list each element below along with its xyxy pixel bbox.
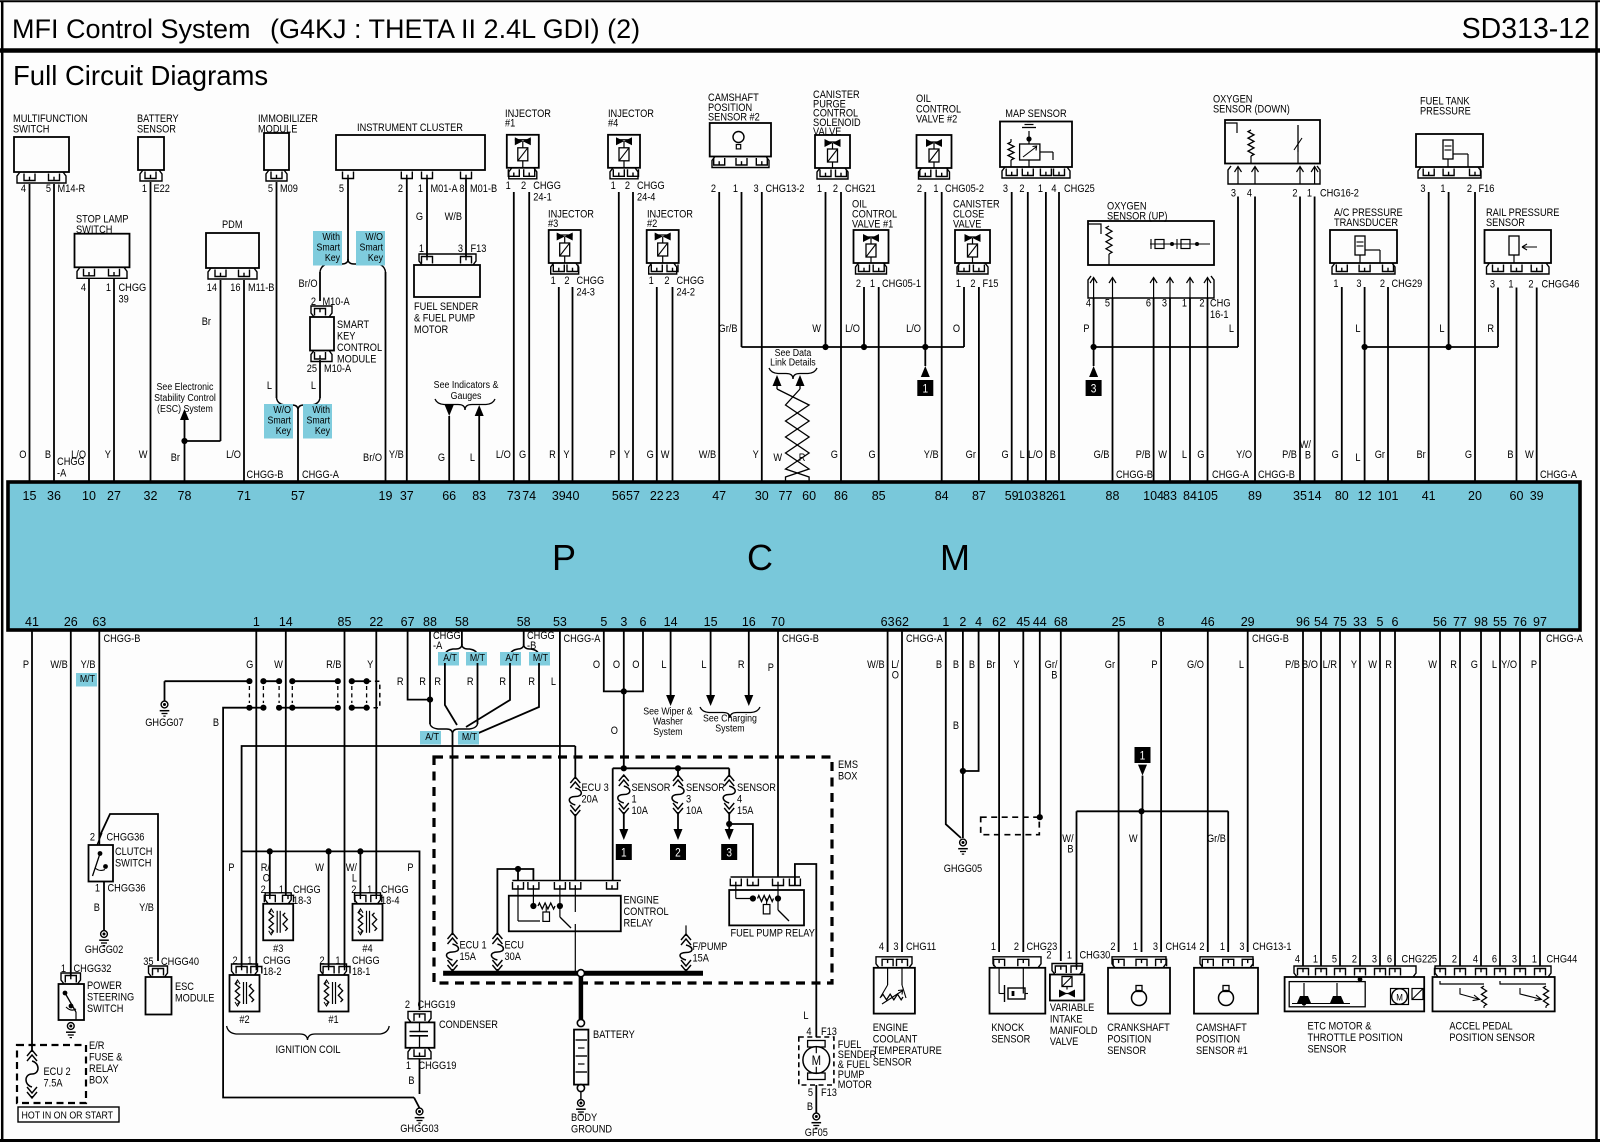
- svg-text:CHGG36: CHGG36: [108, 883, 146, 895]
- svg-text:L: L: [551, 676, 556, 688]
- svg-text:POWER: POWER: [87, 980, 122, 992]
- wire: [285, 630, 287, 896]
- wire L/R ETC pin 5: [1339, 630, 1341, 966]
- svg-text:76: 76: [1513, 615, 1527, 629]
- wire: [88, 279, 90, 482]
- see charging reference: [700, 707, 730, 718]
- svg-text:1: 1: [1313, 954, 1318, 966]
- svg-text:W/B: W/B: [445, 211, 463, 223]
- svg-text:88: 88: [423, 615, 437, 629]
- svg-text:W: W: [274, 659, 283, 671]
- svg-text:Y/B: Y/B: [389, 449, 404, 461]
- wire O pin 6: [624, 630, 643, 691]
- svg-text:66: 66: [442, 489, 456, 503]
- wire smart key L: [319, 360, 321, 398]
- svg-text:R: R: [1385, 659, 1392, 671]
- wire: [1058, 192, 1060, 482]
- svg-text:39: 39: [552, 489, 566, 503]
- svg-text:3: 3: [1490, 279, 1495, 291]
- svg-text:O: O: [892, 670, 899, 682]
- wire: [150, 182, 152, 482]
- svg-text:SENSOR: SENSOR: [686, 782, 725, 794]
- svg-text:23: 23: [666, 489, 680, 503]
- svg-text:Br: Br: [202, 316, 212, 328]
- wire G to pin 66: [445, 405, 454, 416]
- wire: [113, 279, 115, 482]
- wire W to crankshaft sensor pin1: [1141, 811, 1143, 952]
- marker 1 sensor: [616, 844, 632, 860]
- svg-text:M/T: M/T: [462, 731, 477, 743]
- svg-text:4: 4: [1051, 183, 1056, 195]
- svg-text:R: R: [1487, 323, 1494, 335]
- svg-text:83: 83: [1163, 489, 1177, 503]
- svg-text:1: 1: [1038, 183, 1043, 195]
- svg-text:18-3: 18-3: [293, 895, 312, 907]
- svg-text:G: G: [246, 659, 253, 671]
- wire P oxygen up pin4 to net 3: [1093, 298, 1095, 347]
- svg-text:ESC: ESC: [175, 981, 194, 993]
- svg-text:B: B: [1050, 449, 1056, 461]
- svg-text:P: P: [23, 659, 29, 671]
- svg-text:1: 1: [649, 275, 654, 287]
- wire R second M/T branch: [460, 663, 539, 741]
- svg-text:1: 1: [1440, 183, 1445, 195]
- svg-text:MOTOR: MOTOR: [838, 1079, 872, 1091]
- wire W accel pin 5: [1439, 630, 1441, 966]
- wire Br pin 62: [998, 630, 1000, 952]
- svg-text:VALVE: VALVE: [1050, 1037, 1079, 1049]
- svg-text:#1: #1: [505, 118, 516, 130]
- svg-text:B: B: [213, 717, 219, 729]
- svg-text:10A: 10A: [632, 805, 649, 817]
- wire: [1516, 288, 1518, 483]
- svg-text:INTAKE: INTAKE: [1050, 1014, 1083, 1026]
- svg-text:F13: F13: [821, 1087, 837, 1099]
- svg-text:15: 15: [704, 615, 718, 629]
- svg-text:5: 5: [1432, 954, 1437, 966]
- net A/C fuel-tank rail junction line: [1365, 346, 1498, 348]
- svg-text:B: B: [45, 449, 51, 461]
- svg-text:2: 2: [833, 183, 838, 195]
- svg-text:CHGG-B: CHGG-B: [247, 469, 284, 481]
- svg-text:1: 1: [870, 278, 875, 290]
- ECU 1 fuse 15A: [448, 933, 458, 939]
- svg-text:W: W: [1158, 449, 1167, 461]
- svg-text:G: G: [831, 449, 838, 461]
- svg-text:8: 8: [1158, 615, 1165, 629]
- wire: [344, 630, 346, 966]
- svg-text:5: 5: [46, 183, 51, 195]
- wire G cluster pin1 to fuel sender: [426, 179, 428, 257]
- svg-text:73: 73: [507, 489, 521, 503]
- svg-text:System: System: [653, 726, 682, 738]
- svg-text:R: R: [467, 676, 474, 688]
- svg-text:1: 1: [1140, 750, 1146, 763]
- svg-text:1: 1: [1532, 954, 1537, 966]
- svg-text:4: 4: [879, 941, 884, 953]
- svg-text:2: 2: [521, 180, 526, 192]
- svg-text:R: R: [738, 659, 745, 671]
- svg-text:3: 3: [620, 615, 627, 629]
- E/R fuse and relay box: [17, 1045, 86, 1103]
- svg-text:L/O: L/O: [496, 449, 511, 461]
- svg-text:37: 37: [400, 489, 414, 503]
- svg-text:Gr: Gr: [1105, 659, 1116, 671]
- svg-text:18-1: 18-1: [352, 966, 371, 978]
- svg-text:CHGG: CHGG: [576, 275, 604, 287]
- svg-text:G/O: G/O: [1187, 659, 1204, 671]
- svg-text:M01-A: M01-A: [431, 183, 458, 195]
- svg-text:83: 83: [472, 489, 486, 503]
- svg-text:2: 2: [664, 275, 669, 287]
- wire Y/B pin 63: [98, 630, 100, 845]
- svg-text:GF05: GF05: [805, 1127, 828, 1139]
- wire: [618, 192, 620, 482]
- svg-text:CHG13-2: CHG13-2: [765, 183, 804, 195]
- svg-text:R: R: [1450, 659, 1457, 671]
- svg-text:1: 1: [551, 275, 556, 287]
- svg-text:60: 60: [1510, 489, 1524, 503]
- svg-text:1: 1: [733, 183, 738, 195]
- svg-text:6: 6: [1387, 954, 1392, 966]
- svg-text:Y: Y: [753, 449, 759, 461]
- svg-text:BATTERY: BATTERY: [593, 1029, 635, 1041]
- svg-text:CHG25: CHG25: [1064, 183, 1095, 195]
- svg-text:45: 45: [1016, 615, 1030, 629]
- wire W canister purge pin1 to net 1: [825, 192, 827, 347]
- svg-text:-A: -A: [433, 640, 442, 652]
- svg-text:ECU 1: ECU 1: [459, 940, 486, 952]
- wire R pin 16 charging arrow: [748, 630, 750, 695]
- svg-text:2: 2: [959, 615, 966, 629]
- svg-text:CHGG: CHGG: [533, 180, 561, 192]
- svg-text:F16: F16: [1478, 183, 1494, 195]
- svg-text:2: 2: [1046, 950, 1051, 962]
- svg-text:W: W: [315, 862, 324, 874]
- wire W ETC pin 3: [1379, 630, 1381, 966]
- svg-text:75: 75: [1333, 615, 1347, 629]
- fuel pump relay output wire: [795, 864, 816, 1037]
- svg-text:Gr: Gr: [1375, 449, 1386, 461]
- svg-text:TEMPERATURE: TEMPERATURE: [873, 1045, 942, 1057]
- twisted pair wires to pins 77 and 60: [777, 389, 809, 482]
- svg-text:VALVE #2: VALVE #2: [916, 114, 958, 126]
- svg-text:CHG16-2: CHG16-2: [1320, 188, 1359, 200]
- svg-text:P: P: [1083, 323, 1089, 335]
- wire R second A/T branch: [466, 663, 510, 727]
- svg-text:KEY: KEY: [337, 331, 356, 343]
- wire B condenser to ground: [419, 1059, 421, 1094]
- svg-text:ACCEL PEDAL: ACCEL PEDAL: [1449, 1021, 1513, 1033]
- svg-text:84: 84: [935, 489, 949, 503]
- svg-text:80: 80: [1335, 489, 1349, 503]
- svg-text:L: L: [1182, 449, 1187, 461]
- svg-text:PDM: PDM: [222, 219, 243, 231]
- svg-text:78: 78: [178, 489, 192, 503]
- injector #4: [608, 135, 640, 168]
- svg-text:M11-B: M11-B: [248, 282, 275, 294]
- svg-text:24-4: 24-4: [637, 192, 656, 204]
- ignition coil brace: [227, 1026, 308, 1040]
- wire G/O pin 46: [1207, 630, 1209, 952]
- svg-text:CHGG-A: CHGG-A: [1212, 469, 1249, 481]
- smart key merge brace: [277, 398, 299, 410]
- sensor 1 fuse 10A: [619, 775, 629, 781]
- svg-text:67: 67: [401, 615, 415, 629]
- svg-text:VALVE #1: VALVE #1: [852, 219, 894, 231]
- ETC motor throttle position sensor: [1294, 966, 1416, 977]
- svg-text:L: L: [661, 659, 666, 671]
- svg-text:74: 74: [522, 489, 536, 503]
- svg-text:STEERING: STEERING: [87, 992, 134, 1004]
- jumper dashed corner: [367, 681, 380, 708]
- svg-text:W: W: [773, 452, 782, 464]
- svg-text:53: 53: [553, 615, 567, 629]
- svg-text:16-1: 16-1: [1210, 309, 1229, 321]
- svg-text:ENGINE: ENGINE: [873, 1022, 909, 1034]
- wire: [1341, 287, 1343, 482]
- merge brace A/T M/T: [430, 724, 453, 734]
- svg-text:Y/B: Y/B: [81, 659, 96, 671]
- wire: [1027, 192, 1029, 482]
- svg-text:63: 63: [881, 615, 895, 629]
- svg-text:TRANSDUCER: TRANSDUCER: [1334, 218, 1398, 230]
- wire: [375, 630, 377, 896]
- svg-text:18-4: 18-4: [381, 895, 400, 907]
- branch to ESC module: [99, 814, 158, 961]
- wire O pin 3: [623, 630, 625, 768]
- wire merged to ECU 1 fuse: [452, 734, 454, 933]
- svg-text:L: L: [470, 452, 475, 464]
- battery: [574, 1030, 588, 1085]
- svg-text:P: P: [228, 862, 234, 874]
- svg-text:3: 3: [753, 183, 758, 195]
- wire to marker 1: [924, 347, 926, 366]
- svg-text:96: 96: [1296, 615, 1310, 629]
- svg-text:18-2: 18-2: [263, 966, 282, 978]
- svg-text:98: 98: [1474, 615, 1488, 629]
- svg-text:G/B: G/B: [1094, 449, 1110, 461]
- svg-text:IGNITION COIL: IGNITION COIL: [275, 1044, 340, 1056]
- wire: [761, 192, 763, 482]
- svg-text:1: 1: [1508, 279, 1513, 291]
- svg-text:Key: Key: [368, 252, 383, 264]
- svg-text:L: L: [803, 1010, 808, 1022]
- svg-text:O: O: [263, 873, 270, 885]
- ignition coil supply rail: [242, 851, 420, 1010]
- fuel pump relay: [731, 876, 801, 878]
- net 3 junction line: [1094, 346, 1238, 348]
- svg-text:1: 1: [956, 278, 961, 290]
- svg-text:CHGG19: CHGG19: [417, 999, 455, 1011]
- svg-text:R: R: [397, 676, 404, 688]
- wire: [1169, 298, 1171, 482]
- svg-text:B: B: [936, 659, 942, 671]
- wire: [1153, 298, 1155, 482]
- svg-text:CHGG-B: CHGG-B: [1252, 633, 1289, 645]
- svg-text:2: 2: [1467, 183, 1472, 195]
- svg-text:39: 39: [1530, 489, 1544, 503]
- battery tap: [577, 970, 584, 977]
- wire R pin 88: [429, 630, 431, 724]
- ECU 30A feed corner: [497, 869, 533, 933]
- wire R ETC pin 6: [1394, 630, 1396, 966]
- svg-text:Key: Key: [325, 252, 340, 264]
- svg-text:Y/O: Y/O: [1501, 659, 1517, 671]
- svg-text:C: C: [747, 537, 773, 578]
- svg-text:CHGG-B: CHGG-B: [1258, 469, 1295, 481]
- svg-text:L: L: [1355, 323, 1360, 335]
- svg-text:56: 56: [612, 489, 626, 503]
- marker 1: [917, 380, 933, 396]
- svg-text:1: 1: [1333, 278, 1338, 290]
- svg-text:25: 25: [307, 363, 318, 375]
- svg-text:1: 1: [621, 847, 627, 860]
- wire: [1428, 192, 1430, 482]
- svg-text:2: 2: [970, 278, 975, 290]
- wire Y ETC pin 2: [1359, 630, 1361, 966]
- ground GHGG05: [960, 839, 967, 846]
- svg-text:M/T: M/T: [470, 652, 485, 664]
- svg-text:W: W: [661, 449, 670, 461]
- injector #2: [647, 230, 679, 263]
- svg-text:24-2: 24-2: [677, 287, 696, 299]
- svg-text:HOT IN ON OR START: HOT IN ON OR START: [22, 1110, 114, 1122]
- svg-text:SENSOR: SENSOR: [873, 1057, 912, 1069]
- MAP sensor element: [1020, 144, 1040, 160]
- wire Y pin 45: [1022, 630, 1024, 952]
- svg-text:63: 63: [92, 615, 106, 629]
- svg-text:1: 1: [247, 955, 252, 967]
- wire: [887, 630, 889, 952]
- svg-text:58: 58: [455, 615, 469, 629]
- arrows data link: [773, 375, 782, 386]
- svg-text:97: 97: [1533, 615, 1547, 629]
- jumper ladder connectors: [246, 678, 252, 684]
- marker 3 sensor: [721, 844, 737, 860]
- svg-text:W/B: W/B: [50, 659, 68, 671]
- svg-text:MAP SENSOR: MAP SENSOR: [1005, 108, 1066, 120]
- svg-text:Link Details: Link Details: [770, 357, 816, 369]
- w/o smart key tag: [356, 231, 385, 266]
- svg-text:L: L: [1229, 323, 1234, 335]
- svg-text:L/O: L/O: [906, 323, 921, 335]
- svg-text:W: W: [1368, 659, 1377, 671]
- svg-text:3: 3: [1420, 183, 1425, 195]
- svg-text:#4: #4: [362, 943, 373, 955]
- wire: [1189, 298, 1191, 482]
- svg-text:2: 2: [1019, 183, 1024, 195]
- svg-text:62: 62: [895, 615, 909, 629]
- svg-text:58: 58: [517, 615, 531, 629]
- svg-text:SENSOR: SENSOR: [1307, 1044, 1346, 1056]
- svg-text:G: G: [519, 449, 526, 461]
- svg-text:1: 1: [1307, 188, 1312, 200]
- svg-text:CHG14: CHG14: [1166, 941, 1197, 953]
- wire W/B to VIS pin1: [1076, 811, 1078, 967]
- svg-text:105: 105: [1197, 489, 1218, 503]
- svg-text:CHG13-1: CHG13-1: [1253, 941, 1292, 953]
- svg-text:SMART: SMART: [337, 319, 369, 331]
- svg-text:O: O: [19, 449, 26, 461]
- svg-text:Gr: Gr: [966, 449, 977, 461]
- svg-text:#1: #1: [328, 1014, 339, 1026]
- wire: [1207, 298, 1209, 482]
- svg-text:1: 1: [95, 883, 100, 895]
- svg-text:1: 1: [506, 180, 511, 192]
- wire B pin 4: [963, 630, 979, 771]
- svg-text:8: 8: [459, 183, 464, 195]
- svg-text:B: B: [408, 1075, 414, 1087]
- svg-text:14: 14: [664, 615, 678, 629]
- svg-text:CAMSHAFT: CAMSHAFT: [1196, 1022, 1247, 1034]
- wire L/O pin 62: [901, 630, 903, 952]
- svg-text:Key: Key: [315, 425, 330, 437]
- svg-text:W: W: [812, 323, 821, 335]
- svg-text:5: 5: [339, 183, 344, 195]
- svg-text:P/B: P/B: [1136, 449, 1151, 461]
- svg-text:2: 2: [90, 832, 95, 844]
- svg-text:P: P: [407, 862, 413, 874]
- svg-text:CHGG-A: CHGG-A: [1546, 633, 1583, 645]
- svg-text:ETC MOTOR &: ETC MOTOR &: [1307, 1021, 1371, 1033]
- svg-text:R: R: [799, 452, 806, 464]
- svg-text:G: G: [1001, 449, 1008, 461]
- svg-text:Br: Br: [1417, 449, 1427, 461]
- svg-text:41: 41: [25, 615, 39, 629]
- injector #3: [549, 230, 581, 263]
- svg-text:A/T: A/T: [505, 652, 519, 664]
- svg-text:1: 1: [922, 383, 928, 396]
- svg-text:THROTTLE POSITION: THROTTLE POSITION: [1307, 1032, 1402, 1044]
- svg-text:1: 1: [933, 183, 938, 195]
- svg-text:54: 54: [1314, 615, 1328, 629]
- svg-text:2: 2: [398, 183, 403, 195]
- svg-text:W: W: [139, 449, 148, 461]
- svg-text:ECU 2: ECU 2: [44, 1066, 71, 1078]
- svg-text:19: 19: [379, 489, 393, 503]
- svg-text:15A: 15A: [692, 953, 709, 965]
- svg-text:G: G: [1197, 449, 1204, 461]
- wire: [840, 192, 842, 482]
- marker 2 sensor: [670, 844, 686, 860]
- wire Br/O to pin 19: [385, 272, 387, 482]
- svg-text:W/B: W/B: [867, 659, 885, 671]
- svg-text:B: B: [1305, 450, 1311, 462]
- wire P accel pin 1: [1539, 630, 1541, 966]
- svg-text:5: 5: [600, 615, 607, 629]
- svg-text:G: G: [647, 449, 654, 461]
- svg-text:& FUEL PUMP: & FUEL PUMP: [414, 313, 475, 325]
- with smart key tag: [313, 231, 342, 266]
- svg-text:B: B: [807, 1101, 813, 1113]
- net junction line to marker 1: [742, 346, 965, 348]
- engine control relay: [512, 880, 621, 882]
- svg-text:MOTOR: MOTOR: [414, 324, 448, 336]
- svg-text:MANIFOLD: MANIFOLD: [1050, 1025, 1098, 1037]
- with smart key tag lower: [303, 404, 332, 439]
- svg-text:56: 56: [1433, 615, 1447, 629]
- svg-text:3: 3: [1003, 183, 1008, 195]
- wire: [572, 287, 574, 482]
- svg-text:10A: 10A: [686, 805, 703, 817]
- wire L accel pin 6: [1499, 630, 1501, 966]
- svg-text:15A: 15A: [459, 951, 476, 963]
- svg-text:R: R: [528, 676, 535, 688]
- wire: [53, 184, 55, 482]
- wire: [1112, 298, 1114, 482]
- svg-text:System: System: [715, 723, 744, 735]
